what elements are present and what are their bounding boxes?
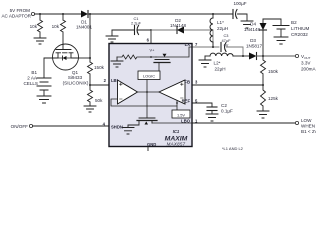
svg-text:2: 2 <box>104 78 107 83</box>
svg-text:1N4148: 1N4148 <box>170 23 187 28</box>
wire top rail <box>35 13 232 15</box>
IC internal LBO wire <box>152 122 192 124</box>
svg-text:C2: C2 <box>221 103 227 108</box>
svg-text:1N4148: 1N4148 <box>244 27 261 32</box>
resistor divider bottom 50k <box>88 85 104 106</box>
resistor R 10k first <box>30 14 43 38</box>
svg-text:CR2032: CR2032 <box>291 32 308 37</box>
node VOUT <box>295 54 316 72</box>
IC comparator left <box>118 80 138 104</box>
diode D1 <box>76 11 93 30</box>
resistor R 10k second <box>52 14 66 44</box>
svg-text:D4: D4 <box>250 22 256 27</box>
capacitor C3 <box>221 33 243 56</box>
svg-text:D3: D3 <box>250 38 256 43</box>
svg-text:LBO: LBO <box>181 118 191 123</box>
IC internal PFET rectifier <box>154 47 192 71</box>
IC pin labels <box>103 38 198 148</box>
IC internal REF line <box>111 99 178 110</box>
svg-text:B1 < 2V: B1 < 2V <box>301 129 316 134</box>
svg-text:MAX857: MAX857 <box>167 142 186 147</box>
svg-text:10k: 10k <box>52 24 60 29</box>
resistor divider top 150k <box>88 62 105 86</box>
svg-text:22µH: 22µH <box>214 67 225 72</box>
wire D2 to LX node <box>184 30 213 47</box>
diode D3 <box>243 38 262 60</box>
wire D4-B2 bracket <box>263 19 281 25</box>
svg-text:B2: B2 <box>291 20 297 25</box>
svg-text:WHEN: WHEN <box>301 124 315 129</box>
ground of B1 <box>37 96 51 103</box>
svg-text:Si9433: Si9433 <box>68 75 83 80</box>
ground of C2 <box>206 114 218 121</box>
svg-text:6: 6 <box>147 38 150 43</box>
IC part label MAXIM MAX857 <box>165 129 188 147</box>
svg-text:LOW: LOW <box>301 118 312 123</box>
battery B2 <box>273 20 310 37</box>
svg-text:3.3V: 3.3V <box>301 61 311 66</box>
svg-text:REF: REF <box>182 99 191 104</box>
capacitor C1 <box>112 16 151 36</box>
svg-text:150k: 150k <box>268 69 279 74</box>
transistor Q1 PMOS <box>53 44 89 86</box>
svg-text:AC ADAPTOR: AC ADAPTOR <box>1 14 31 19</box>
svg-text:(SILICONIX): (SILICONIX) <box>63 81 89 86</box>
battery B1 <box>23 70 51 96</box>
ground of B2 <box>274 37 288 44</box>
svg-text:LITHIUM: LITHIUM <box>291 26 310 31</box>
svg-text:*L1 AND L2: *L1 AND L2 <box>222 146 244 151</box>
svg-text:22µH: 22µH <box>217 26 228 31</box>
svg-text:L2*: L2* <box>214 61 221 66</box>
svg-text:2 AA: 2 AA <box>27 76 38 81</box>
svg-text:200mA: 200mA <box>301 67 316 72</box>
svg-text:0.1µF: 0.1µF <box>221 109 233 114</box>
resistor 125k <box>261 85 279 111</box>
IC reference box 1.5V <box>172 110 190 118</box>
diode D2 <box>170 18 187 34</box>
inductor L1 <box>210 14 228 47</box>
wire FB <box>192 84 263 86</box>
node ON/OFF <box>11 124 33 129</box>
svg-text:10k: 10k <box>30 24 38 29</box>
wire Q1 source to battery B1 <box>44 58 53 78</box>
svg-text:1N5817: 1N5817 <box>246 44 263 49</box>
svg-text:2.2µF: 2.2µF <box>131 21 142 26</box>
svg-text:L1*: L1* <box>217 20 224 25</box>
ground of C4 <box>241 21 253 28</box>
IC internal comparator output wires <box>138 80 160 119</box>
svg-text:V+: V+ <box>150 48 156 53</box>
ground of C1 <box>106 36 118 42</box>
wire SHDN <box>33 125 109 127</box>
svg-text:5V FROM: 5V FROM <box>10 8 31 13</box>
IC internal ground of NFET <box>122 128 134 135</box>
IC internal bias resistor <box>117 48 156 60</box>
IC comparator right <box>159 80 185 104</box>
svg-text:1.5V: 1.5V <box>177 113 185 118</box>
capacitor C4 input 100uF <box>232 1 247 21</box>
svg-text:150k: 150k <box>94 65 105 70</box>
IC internal NFET LBO driver <box>128 118 157 128</box>
wire LX <box>192 46 219 48</box>
svg-text:VOUT: VOUT <box>301 54 311 60</box>
IC GND pin stub <box>147 147 149 152</box>
wire VOUT rail <box>257 55 296 57</box>
inductor L2 <box>205 53 244 71</box>
diode D4 <box>244 19 267 56</box>
wire bootstrap to V+ pin <box>150 29 176 44</box>
node LBO output <box>295 118 318 134</box>
svg-text:LX: LX <box>185 42 191 47</box>
svg-text:125k: 125k <box>268 96 279 101</box>
node 5V input <box>1 8 34 19</box>
svg-text:LOGIC: LOGIC <box>143 74 155 79</box>
IC LOGIC box <box>138 71 160 80</box>
op-amp IC1 body <box>109 44 192 147</box>
ground of first 10k <box>34 38 46 44</box>
ground of divider <box>84 106 96 112</box>
IC internal ground of bias resistor <box>111 57 123 67</box>
footnote <box>222 146 244 151</box>
svg-text:6V: 6V <box>224 43 229 48</box>
svg-text:100µF: 100µF <box>233 1 246 6</box>
svg-text:FB: FB <box>184 80 190 85</box>
resistor 150k FB top <box>261 56 279 86</box>
svg-text:ON/OFF: ON/OFF <box>11 124 29 129</box>
svg-text:IC1: IC1 <box>173 129 180 134</box>
svg-text:B1: B1 <box>31 70 37 75</box>
svg-text:SHDN: SHDN <box>111 125 123 130</box>
ground of L2 <box>199 56 211 67</box>
svg-text:LBI: LBI <box>111 78 118 83</box>
svg-text:3: 3 <box>195 80 198 85</box>
svg-text:CELLS: CELLS <box>23 81 38 86</box>
capacitor C2 <box>192 103 233 114</box>
wire LBO <box>192 122 295 124</box>
svg-text:7: 7 <box>195 42 198 47</box>
svg-text:50k: 50k <box>95 98 103 103</box>
ground of 125k <box>257 111 269 118</box>
wire LBI <box>90 84 117 86</box>
wire rail to Q1 drain / divider <box>79 14 91 62</box>
